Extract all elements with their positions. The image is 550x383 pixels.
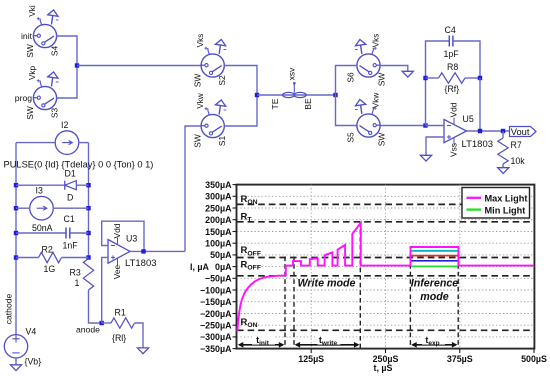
svg-text:Min Light: Min Light	[485, 205, 526, 215]
time arrow twrite	[295, 342, 360, 348]
inference trace cyan	[411, 250, 457, 252]
junction BE	[333, 93, 337, 97]
svg-text:10k: 10k	[511, 156, 526, 166]
wire feedback vertical	[479, 78, 481, 131]
capacitor C4	[449, 36, 453, 47]
junction left rail D1	[14, 183, 18, 187]
svg-text:{Vb}: {Vb}	[25, 357, 42, 367]
ground at R1	[137, 348, 148, 354]
voltage source V4	[4, 335, 27, 358]
svg-text:S1: S1	[217, 136, 227, 147]
svg-text:{Rl}: {Rl}	[112, 333, 126, 343]
svg-text:xsv: xsv	[286, 67, 296, 80]
svg-text:Vss: Vss	[449, 143, 459, 157]
inference trace green (Min Light)	[411, 265, 457, 267]
svg-text:R2: R2	[42, 245, 53, 255]
resistor R3	[83, 259, 93, 291]
wire I2 left	[16, 142, 56, 144]
wire I3 right	[53, 207, 89, 209]
svg-text:1pF: 1pF	[444, 49, 460, 59]
wire V4 to ground	[15, 358, 17, 365]
wire U3 output	[130, 250, 185, 252]
svg-text:Vee: Vee	[112, 264, 122, 279]
svg-text:SW: SW	[193, 134, 203, 148]
svg-text:U3: U3	[126, 234, 137, 244]
svg-text:BE: BE	[303, 98, 313, 110]
op-amp U5	[444, 118, 467, 145]
svg-text:prog: prog	[15, 93, 32, 103]
wire TE-BE	[257, 94, 336, 96]
ground at U5 +input	[420, 155, 431, 161]
dashed level line R_OFF upper	[237, 257, 534, 259]
svg-text:100µA: 100µA	[205, 239, 232, 249]
svg-text:C4: C4	[445, 25, 456, 35]
wire S2 to TE node	[224, 66, 257, 96]
legend box	[462, 188, 530, 219]
svg-text:Vks: Vks	[196, 34, 205, 48]
svg-text:R3: R3	[70, 268, 81, 278]
svg-text:1nF: 1nF	[63, 241, 79, 251]
voltage-controlled switch S3 (Vkp control)	[15, 65, 60, 119]
wire anode to R1	[102, 322, 111, 324]
svg-text:−100µA: −100µA	[200, 285, 232, 295]
wire BE node to S5	[336, 95, 358, 126]
wire U5 noninverting to ground	[426, 137, 444, 155]
svg-text:init: init	[21, 31, 33, 41]
wire R3 to anode	[89, 290, 102, 323]
voltage-controlled switch S5 (Vkw control)	[346, 93, 387, 147]
voltage-controlled switch S4 (Vki control)	[21, 5, 60, 58]
wire D1 right	[76, 184, 88, 186]
svg-text:1: 1	[75, 278, 80, 288]
svg-text:0µA: 0µA	[215, 262, 232, 272]
svg-text:LT1803: LT1803	[462, 139, 494, 150]
legend Min Light	[467, 208, 482, 210]
svg-text:Vkw: Vkw	[196, 93, 205, 109]
wire I3 left	[16, 207, 30, 209]
voltage-controlled switch S1 (Vkw control)	[193, 93, 228, 148]
resistor R7	[498, 138, 508, 164]
wire S1 to TE node	[224, 95, 257, 126]
legend Max Light	[467, 197, 482, 199]
svg-text:Inference: Inference	[411, 278, 459, 290]
wire into U5 inverting input	[426, 125, 445, 127]
svg-text:−150µA: −150µA	[200, 297, 232, 307]
junction R8 left	[423, 76, 427, 80]
svg-text:Vks: Vks	[371, 34, 380, 48]
ground at S6	[402, 71, 413, 77]
device xsv (memristor)	[283, 82, 307, 98]
wire C1 left	[16, 232, 66, 234]
chart gridlines	[237, 185, 534, 349]
svg-text:Vkp: Vkp	[28, 65, 37, 80]
wire U5 output	[467, 130, 510, 132]
time arrow tinit	[238, 342, 284, 348]
junction U3 output/feedback	[141, 249, 145, 253]
svg-text:{Rf}: {Rf}	[445, 84, 460, 94]
svg-text:150µA: 150µA	[205, 227, 232, 237]
svg-text:250µA: 250µA	[205, 203, 232, 213]
junction left rail C1	[14, 231, 18, 235]
junction R8 right	[478, 76, 482, 80]
time arrow texp	[411, 342, 457, 348]
svg-text:mode: mode	[420, 291, 449, 303]
svg-text:−300µA: −300µA	[200, 332, 232, 342]
svg-text:125µS: 125µS	[298, 354, 324, 364]
wire R2 right	[62, 257, 89, 259]
svg-text:300µA: 300µA	[205, 192, 232, 202]
junction right rail C1	[86, 231, 90, 235]
svg-text:Write mode: Write mode	[298, 278, 356, 290]
svg-text:U5: U5	[463, 114, 474, 124]
junction anode	[100, 321, 104, 325]
junction feedback/output	[478, 129, 482, 133]
wire S6 to ground	[380, 65, 404, 67]
svg-text:R1: R1	[115, 308, 126, 318]
wire left rail	[15, 143, 17, 335]
wire I2 right	[78, 142, 88, 144]
wire R8 to feedback	[465, 77, 480, 79]
resistor R1	[111, 318, 135, 328]
svg-text:t, µS: t, µS	[374, 363, 393, 373]
dashed region boundary lines	[285, 222, 458, 349]
svg-text:S4: S4	[50, 46, 60, 57]
ground at R7	[498, 168, 509, 174]
inference trace red	[411, 255, 457, 257]
junction right rail R2 / R3 top	[86, 255, 90, 259]
current source I3	[30, 186, 54, 234]
svg-text:cathode: cathode	[4, 293, 14, 324]
svg-text:1G: 1G	[44, 264, 56, 274]
chart plot area frame	[237, 185, 535, 349]
svg-text:I3: I3	[36, 186, 43, 196]
junction S3/S4	[75, 63, 79, 67]
svg-text:−350µA: −350µA	[200, 344, 232, 354]
svg-text:R8: R8	[447, 62, 458, 72]
svg-text:PULSE(0 {Id} {Tdelay} 0 0 {Ton: PULSE(0 {Id} {Tdelay} 0 0 {Ton} 0 1)	[4, 159, 154, 169]
wire S3 to node	[57, 66, 78, 99]
resistor R2	[39, 252, 62, 262]
wire S6 to BE node	[336, 66, 358, 96]
svg-text:R7: R7	[511, 140, 522, 150]
svg-text:Vkw: Vkw	[371, 93, 380, 109]
svg-text:C1: C1	[64, 214, 75, 224]
wire U3 feedback	[102, 221, 144, 251]
svg-text:SW: SW	[25, 44, 35, 58]
junction right rail I3	[86, 206, 90, 210]
wire S4 to node	[57, 36, 78, 66]
junction U5 inverting input	[423, 123, 427, 127]
Max Light magenta trace	[237, 223, 534, 332]
wire to C4 left	[426, 41, 450, 126]
svg-text:I2: I2	[61, 120, 68, 130]
svg-text:Vdd: Vdd	[449, 102, 459, 117]
svg-text:Vdd: Vdd	[112, 223, 122, 238]
svg-text:Max Light: Max Light	[485, 194, 528, 204]
svg-text:anode: anode	[76, 325, 100, 335]
capacitor C1	[66, 228, 70, 239]
wire R7 to ground	[502, 164, 504, 168]
svg-text:350µA: 350µA	[205, 180, 232, 190]
chart y-axis ticks	[233, 185, 238, 349]
wire to R8	[426, 77, 439, 79]
svg-text:500µS: 500µS	[521, 354, 547, 364]
net flag Vout	[510, 127, 537, 137]
wire S6 ground stub	[404, 66, 408, 72]
svg-text:S5: S5	[346, 132, 356, 143]
chart x-axis ticks	[311, 349, 534, 354]
svg-text:Vki: Vki	[28, 5, 37, 17]
junction left rail I3	[14, 206, 18, 210]
dashed level line R_ON top	[237, 203, 534, 205]
svg-text:−250µA: −250µA	[200, 321, 232, 331]
svg-text:D: D	[67, 193, 73, 203]
svg-text:50nA: 50nA	[32, 223, 53, 233]
wire S5 to U5 input	[380, 125, 426, 127]
svg-text:200µA: 200µA	[205, 215, 232, 225]
resistor R8	[439, 73, 466, 83]
junction R7/Vout	[501, 129, 505, 133]
svg-text:−50µA: −50µA	[205, 274, 232, 284]
svg-text:SW: SW	[193, 74, 203, 88]
junction left rail R2	[14, 255, 18, 259]
svg-text:LT1803: LT1803	[125, 258, 157, 269]
svg-text:−200µA: −200µA	[200, 309, 232, 319]
wire D1 left	[16, 184, 65, 186]
dashed level line R_OFF lower	[237, 275, 534, 277]
svg-text:S3: S3	[50, 108, 60, 119]
voltage-controlled switch S6 (Vks control)	[346, 34, 387, 87]
svg-text:Vout: Vout	[511, 127, 530, 137]
svg-text:375µS: 375µS	[447, 354, 473, 364]
inference trace blue	[411, 260, 457, 262]
junction right rail D1	[86, 183, 90, 187]
svg-text:S2: S2	[217, 75, 227, 86]
junction TE	[255, 93, 259, 97]
diode D1	[65, 181, 77, 190]
dashed level line R_T	[237, 221, 534, 223]
op-amp U3	[108, 238, 130, 266]
wire R2 left	[16, 257, 39, 259]
wire R1 to ground	[135, 323, 144, 348]
current source I2	[55, 120, 79, 154]
svg-text:S6: S6	[346, 72, 356, 83]
svg-text:I, µA: I, µA	[190, 262, 210, 272]
wire node to S2	[77, 65, 201, 67]
svg-text:TE: TE	[270, 98, 280, 109]
dashed level line R_ON bottom	[237, 329, 534, 331]
wire right rail	[88, 143, 90, 258]
svg-text:50µA: 50µA	[210, 250, 232, 260]
wire C4 right to feedback	[453, 41, 480, 78]
wire U3 +input to anode	[102, 257, 108, 323]
svg-text:SW: SW	[377, 133, 387, 147]
wire to R7	[502, 131, 504, 138]
svg-text:V4: V4	[26, 327, 37, 337]
wire S1 to U3 output	[185, 126, 201, 251]
svg-text:SW: SW	[25, 106, 35, 120]
voltage-controlled switch S2 (Vks control)	[193, 34, 228, 88]
wire C1 right	[70, 232, 89, 234]
svg-text:SW: SW	[377, 73, 387, 87]
svg-text:D1: D1	[65, 169, 76, 179]
ground at V4	[10, 365, 21, 371]
